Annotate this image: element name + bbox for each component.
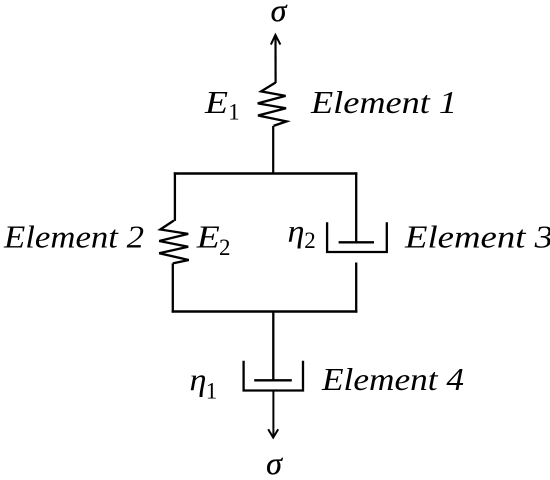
svg-text:Element 3: Element 3 [404, 219, 550, 255]
wire: parallel combination bottom rail [172, 310, 358, 312]
wire: bottom node to dashpot eta1 piston rod [272, 311, 274, 380]
wire: parallel combination top rail [174, 172, 358, 174]
dashpot eta1 cylinder cup [244, 361, 303, 391]
wire: left branch upper segment [174, 172, 176, 221]
svg-text:σ: σ [271, 0, 288, 28]
svg-text:σ: σ [266, 445, 283, 480]
dashpot eta2 cylinder cup [327, 222, 387, 252]
dashpot eta2 piston plate [339, 241, 374, 243]
wire: right branch piston rod (dashpot eta2) [355, 172, 357, 242]
wire: left branch lower segment [172, 263, 174, 312]
svg-text:1: 1 [228, 99, 240, 124]
svg-text:1: 1 [206, 378, 218, 403]
spring E2 (Element 2) [159, 221, 189, 264]
svg-text:E: E [196, 218, 221, 254]
svg-text:Element 2: Element 2 [3, 218, 144, 254]
svg-text:2: 2 [219, 235, 231, 260]
svg-text:Element 4: Element 4 [321, 361, 464, 397]
wire: right branch lower segment [355, 263, 357, 313]
dashpot eta1 piston plate [254, 379, 292, 381]
svg-text:2: 2 [304, 228, 316, 253]
arrowhead top (pointing up) [271, 35, 281, 45]
arrowhead bottom (pointing down) [268, 429, 278, 437]
svg-text:Element 1: Element 1 [310, 84, 457, 120]
svg-text:η: η [288, 213, 305, 249]
spring E1 (Element 1) [258, 83, 287, 126]
wire: spring E1 bottom to parallel-top rail [272, 126, 274, 174]
svg-text:η: η [190, 361, 207, 397]
svg-text:E: E [204, 84, 229, 120]
wire: bottom stress arrow shaft [272, 391, 274, 436]
wire: top stress arrow shaft [274, 36, 276, 84]
